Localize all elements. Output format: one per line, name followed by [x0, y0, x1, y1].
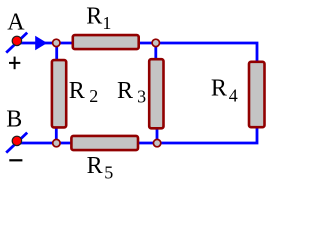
svg-text:R: R — [69, 78, 85, 104]
node junction bottom-left — [53, 139, 60, 146]
current arrow — [35, 36, 47, 51]
wire R3 top stub — [154, 43, 157, 60]
wire R2 bottom stub — [55, 128, 58, 143]
terminal B diagonal lead — [6, 133, 27, 153]
resistor R1 body — [73, 35, 139, 49]
svg-text:1: 1 — [102, 13, 111, 33]
wire R2 top stub — [55, 43, 58, 61]
wire bottom rail from terminal B to R4 bottom — [17, 127, 257, 143]
wire R3 bottom stub — [156, 129, 159, 143]
terminal B red dot — [12, 136, 21, 145]
svg-text:R: R — [211, 76, 227, 102]
node junction bottom-right — [153, 139, 160, 146]
svg-text:B: B — [6, 107, 22, 133]
svg-text:4: 4 — [229, 85, 238, 105]
svg-text:2: 2 — [89, 86, 98, 106]
resistor R3 body — [149, 59, 163, 128]
wire top rail from terminal A to R4 top — [17, 43, 257, 62]
resistor R4 body — [249, 62, 265, 127]
node junction top-right — [152, 39, 159, 46]
svg-text:5: 5 — [104, 163, 113, 183]
resistor R5 body — [71, 136, 138, 150]
resistor R2 body — [52, 60, 66, 127]
svg-text:R: R — [87, 153, 103, 179]
node junction top-left — [53, 39, 60, 46]
svg-text:R: R — [86, 3, 102, 29]
label plus — [9, 57, 20, 70]
svg-text:R: R — [117, 78, 133, 104]
svg-text:3: 3 — [137, 87, 146, 107]
terminal A red dot — [12, 36, 21, 45]
svg-text:A: A — [7, 9, 25, 35]
label minus — [9, 159, 22, 161]
terminal A diagonal lead — [6, 33, 27, 53]
